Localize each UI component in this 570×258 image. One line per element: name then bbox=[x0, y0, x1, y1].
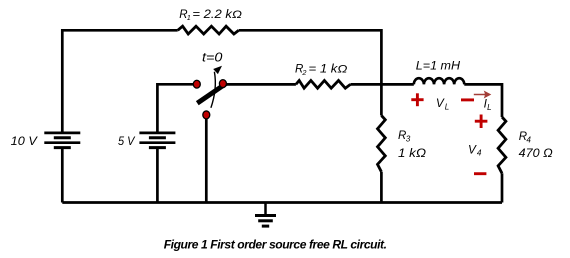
wire top horizontal left of R1 bbox=[62, 30, 177, 133]
wire top horizontal right of R1 bbox=[239, 30, 382, 115]
label R3 name bbox=[398, 130, 411, 144]
svg-text:= 2.2 kΩ: = 2.2 kΩ bbox=[192, 9, 242, 21]
label V4 bbox=[468, 142, 482, 157]
wire inductor to right corner down bbox=[464, 84, 502, 117]
svg-text:2: 2 bbox=[301, 68, 306, 77]
polarity minus V4 bbox=[474, 172, 486, 175]
resistor R1 bbox=[178, 26, 239, 34]
switch S1 pole dot bbox=[203, 111, 210, 119]
svg-text:5 V: 5 V bbox=[118, 134, 136, 148]
wire 5V branch up and to switch bbox=[157, 84, 194, 133]
current arrow IL bbox=[474, 91, 492, 99]
label R1 value bbox=[179, 9, 242, 22]
wire R2 to junction to inductor bbox=[350, 83, 413, 86]
svg-text:4: 4 bbox=[477, 149, 482, 158]
wire switch pole down bbox=[205, 118, 208, 203]
svg-text:4: 4 bbox=[526, 135, 531, 144]
switch S1 right contact dot bbox=[219, 80, 226, 88]
svg-text:L: L bbox=[487, 103, 491, 112]
wire R4 bottom bbox=[501, 173, 504, 202]
label VL bbox=[436, 96, 449, 112]
polarity plus V4 bbox=[475, 115, 488, 129]
svg-text:L=1 mH: L=1 mH bbox=[416, 59, 460, 73]
svg-text:1: 1 bbox=[187, 13, 191, 22]
svg-text:3: 3 bbox=[406, 135, 411, 144]
wire 5V battery to bottom bbox=[156, 148, 159, 203]
svg-text:10 V: 10 V bbox=[11, 134, 38, 148]
svg-text:470 Ω: 470 Ω bbox=[519, 146, 553, 160]
switch S1 left contact dot bbox=[193, 80, 200, 88]
inductor L1 bbox=[414, 78, 465, 84]
wire switch right to R2 bbox=[226, 83, 296, 86]
wire R3 bottom bbox=[380, 172, 383, 203]
svg-text:Figure 1 First order source fr: Figure 1 First order source free RL circ… bbox=[164, 238, 387, 252]
svg-text:V: V bbox=[436, 96, 445, 110]
battery V1 10V bbox=[44, 133, 80, 148]
label R4 name bbox=[519, 131, 532, 145]
svg-text:1 kΩ: 1 kΩ bbox=[398, 146, 426, 160]
ground bbox=[255, 203, 276, 227]
resistor R3 bbox=[378, 116, 386, 172]
wire bottom horizontal bbox=[62, 201, 502, 204]
label IL bbox=[484, 96, 492, 112]
battery V2 5V bbox=[139, 133, 175, 148]
label R2 value bbox=[295, 64, 348, 77]
wire 10V battery to bottom bbox=[61, 148, 64, 203]
polarity minus VL bbox=[461, 98, 474, 101]
svg-text:L: L bbox=[445, 103, 449, 112]
resistor R4 bbox=[498, 117, 506, 173]
svg-text:t=0: t=0 bbox=[202, 49, 223, 64]
resistor R2 bbox=[296, 81, 351, 89]
svg-text:= 1 kΩ: = 1 kΩ bbox=[309, 64, 348, 76]
switch S1 throw arrow bbox=[211, 66, 222, 108]
switch S1 blade bbox=[197, 83, 226, 103]
polarity plus VL bbox=[411, 93, 423, 106]
svg-text:V: V bbox=[468, 142, 477, 156]
